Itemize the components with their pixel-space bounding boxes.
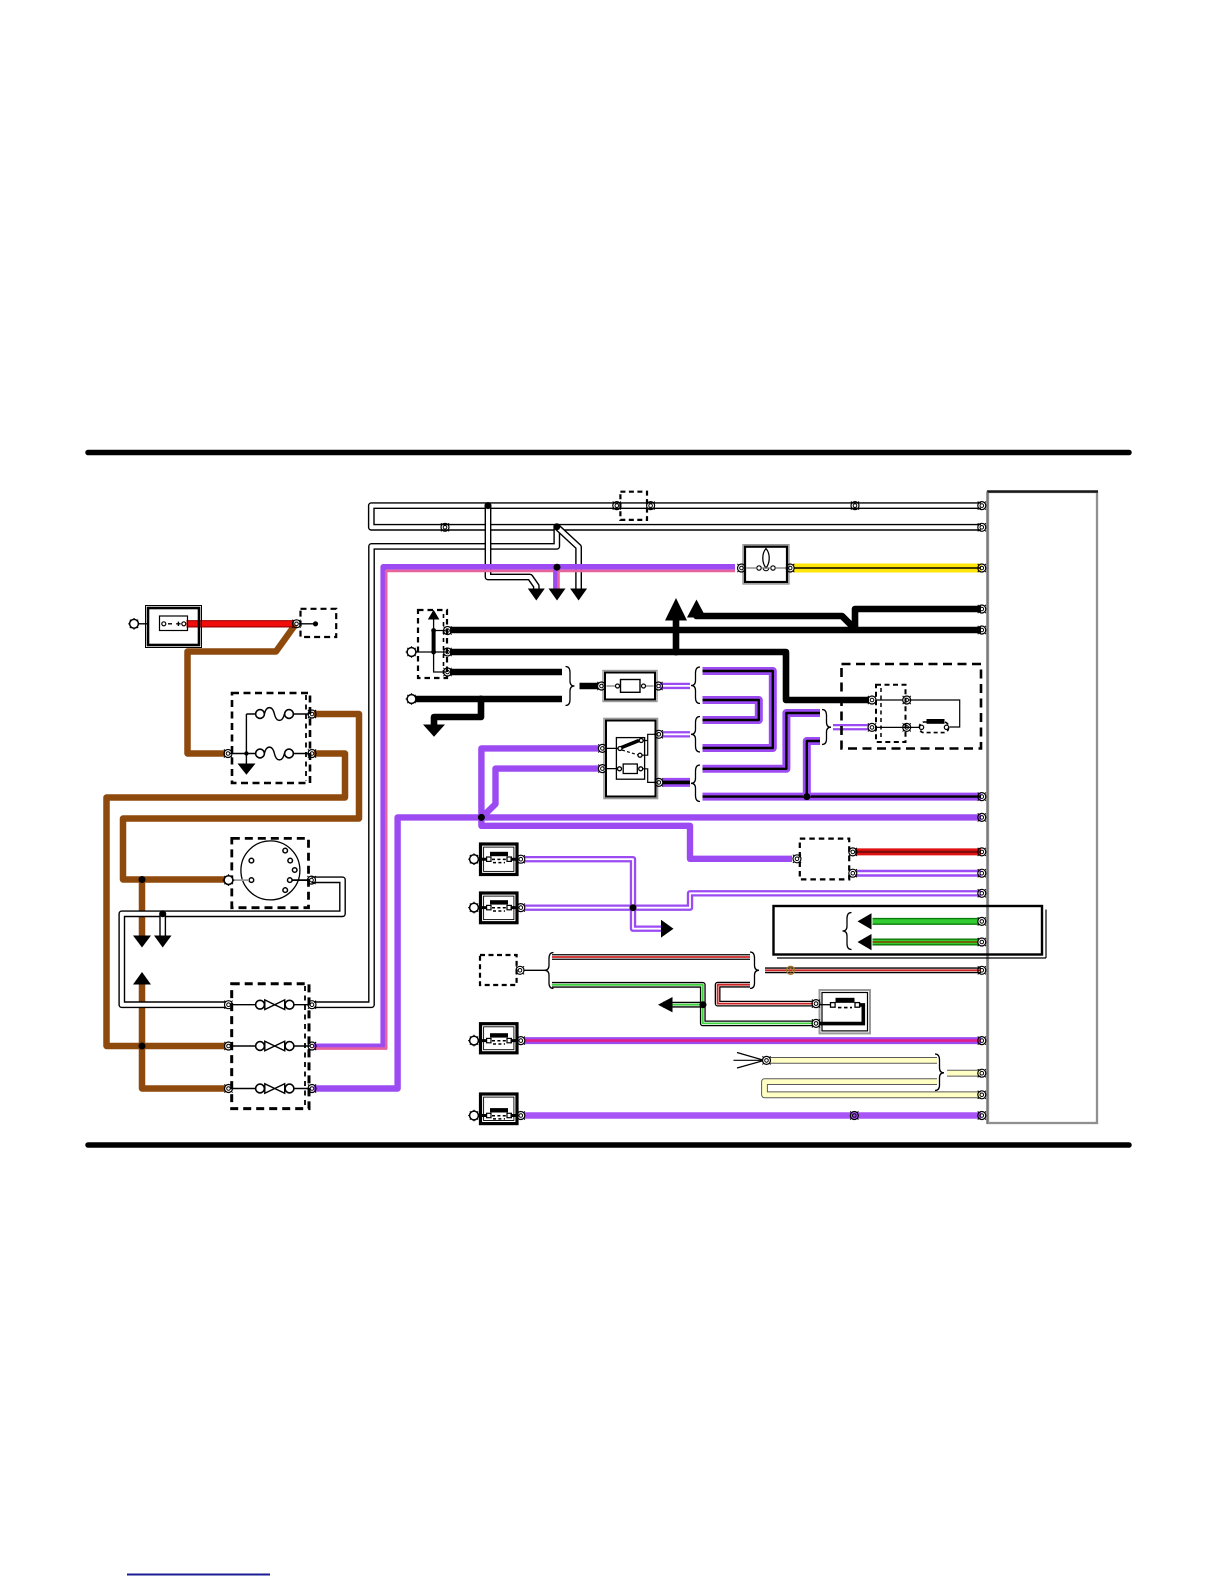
pin ECM red thin <box>978 966 986 974</box>
wire P branch to dashed connector C5 <box>481 817 792 858</box>
fusible link 1 element <box>265 1000 285 1010</box>
wire PW module M1 to off-page arrow core <box>525 859 664 929</box>
dashed connector C2 on white feed <box>620 492 647 520</box>
ring terminal wire4 <box>406 693 418 705</box>
wire GB thin brace to resistor unit outline <box>552 985 813 1024</box>
wire RB thin dashed connector to brace gap <box>552 955 750 958</box>
wire PB row to ECM pin purple <box>703 793 982 801</box>
pin fusible link 2 left <box>224 1042 232 1050</box>
battery terminal block <box>160 616 188 631</box>
arrow up brown off-page return <box>133 972 151 985</box>
wire W feed loop to ECM pins 1-2 outline <box>371 506 981 528</box>
distributor dashed case <box>232 838 309 907</box>
dashed connector C1 at battery <box>301 609 337 637</box>
wire W drop from splice B to arrow outline <box>557 527 579 590</box>
resistor unit bar <box>836 998 855 1003</box>
fusible link 3 left cap <box>256 1084 265 1093</box>
splice fan prongs <box>734 1053 764 1069</box>
wire GB thin branch to left arrow gap <box>663 1003 703 1006</box>
dashed connector C6 <box>480 955 517 985</box>
arrow left green branch <box>658 997 673 1012</box>
wire PW brace to ignition coil connector outline <box>833 724 869 730</box>
pin ECM yellow <box>978 564 986 572</box>
pin flasher left <box>737 564 745 572</box>
wire PK module M3 to ECM pin pink tracer <box>525 1039 982 1042</box>
fusible link 1 right cap <box>285 1000 294 1009</box>
coil capsule pin left <box>919 725 923 729</box>
wire B riser to ECM upper pin <box>855 609 981 630</box>
pin ECM PW M2 <box>978 889 986 897</box>
module M1 bar <box>490 852 508 856</box>
ignition switch lever <box>622 741 640 748</box>
module M2 bar <box>490 900 508 904</box>
flasher lamp leaf <box>763 549 769 569</box>
pin battery positive out <box>292 620 300 628</box>
fusible link 3 right cap <box>285 1084 294 1093</box>
wire PW in-line fuse to brace outline <box>660 683 690 689</box>
ignition coil connector strip <box>880 688 882 738</box>
wire G callout upper from ECM outline <box>873 918 979 925</box>
battery ground lead <box>139 623 149 625</box>
wire PB ignition switch output 2 purple <box>663 778 691 787</box>
arrow left green callout upper <box>858 913 872 929</box>
wire PW dashed connector C5 to ECM pin core <box>855 872 981 874</box>
main fuse box dashed case <box>232 693 310 783</box>
wire W drop from splice A to arrow core <box>488 506 536 590</box>
pin fusible link 3 left <box>224 1084 232 1092</box>
module M1 case <box>481 844 518 875</box>
brace gather fuse output rows <box>691 667 700 704</box>
battery positive terminal <box>182 622 186 626</box>
wire RB thin brace to resistor unit gap <box>718 985 813 1004</box>
arrow down white splice A <box>528 589 545 601</box>
fusible link 2 right cap <box>285 1042 294 1051</box>
ignition switch outer case <box>604 719 658 799</box>
module M1 stubs <box>478 858 519 861</box>
distributor terminal 7 <box>249 878 254 883</box>
GROUP: components <box>139 492 1047 1124</box>
wire B branch to ground arrow <box>434 699 481 725</box>
brace gather green callout rows <box>843 913 852 950</box>
connector C3 strip <box>443 614 445 674</box>
wire PW module M1 to off-page arrow outline <box>525 859 664 929</box>
fuse F2 left cap <box>256 749 265 758</box>
resistor unit feed link <box>819 1004 831 1006</box>
node black wire B riser <box>852 626 859 633</box>
wire PB row to ECM pin black tracer <box>703 795 982 797</box>
wire PW module M2 to ECM pin outline <box>525 893 982 907</box>
ring terminal wire C <box>406 646 418 658</box>
pin C6 out <box>516 966 524 974</box>
wire RB thin dashed connector to brace core <box>552 956 750 958</box>
module M3 capsule <box>492 1041 506 1044</box>
wire G callout upper from ECM core <box>873 919 979 923</box>
fuse F2 right cap <box>285 749 294 758</box>
wire W distributor loop to fusible link 1 core <box>122 880 343 1005</box>
wire RB thin brace to ECM pin core <box>765 969 981 971</box>
module M4 inner line <box>484 1097 514 1120</box>
main fuse box connector strip <box>305 695 307 781</box>
GROUP: black wires <box>414 598 981 737</box>
wire B connector to ignition coil connector <box>450 652 869 700</box>
GROUP: ecm box <box>987 492 1098 1125</box>
pin ignition switch left 2 <box>598 765 606 773</box>
flasher lamp curl <box>763 568 769 571</box>
ignition coil internal links <box>876 700 960 727</box>
brace merge pale yellow rows <box>935 1054 944 1091</box>
pin coil connector right 1 <box>903 696 911 704</box>
arrow down black ground <box>423 725 445 737</box>
wire B bar inside dashed connector <box>432 631 436 653</box>
ECM connector block <box>988 492 1097 1123</box>
ignition switch internal links run <box>642 734 655 755</box>
pin ECM pale yellow 2 <box>978 1091 986 1099</box>
in-line fuse case <box>605 673 655 700</box>
wire PB bundle row A black tracer <box>703 671 773 748</box>
brace split switch output rows <box>691 765 700 802</box>
node inside C1 <box>313 621 318 626</box>
wire PK module M3 to ECM pin purple <box>525 1037 982 1044</box>
wire P+K pair fusible link 2 to flasher pink <box>314 571 735 1049</box>
coil capsule pin right <box>944 725 948 729</box>
wire Y flasher unit to ECM pin <box>794 564 981 573</box>
wire W feed loop to ECM pins 1-2 core <box>371 506 981 528</box>
GROUP: purple wires <box>314 567 981 1089</box>
wire PB branch junction to coil brace bottom black tracer <box>807 741 820 797</box>
flasher unit outer case <box>743 545 789 584</box>
wire W fusible link 1 to splice outline <box>314 527 557 1004</box>
wire LGY brace to ECM pin core <box>947 1071 981 1076</box>
wire P feed to ignition switch pin 1 <box>481 748 599 817</box>
distributor output link <box>292 879 309 881</box>
wire B up-arrow A stem <box>673 619 680 652</box>
node splice purple-pink pair <box>554 564 561 571</box>
node black wire4 branch <box>478 696 485 703</box>
wire PW brace to ignition switch output 1 core <box>663 733 691 735</box>
module M2 capsule <box>492 908 506 911</box>
fusible link 1 left cap <box>256 1000 265 1009</box>
node PB coil branch <box>803 793 810 800</box>
ring terminal battery ground <box>128 618 140 630</box>
node fuse box internal <box>244 751 248 755</box>
module M1 inner line <box>484 847 514 871</box>
distributor terminal 4 <box>288 878 293 883</box>
in-line fuse right pip <box>642 684 646 688</box>
ignition switch dashed alternate throw <box>622 750 638 755</box>
resistor unit outer case <box>820 990 871 1033</box>
pin inline red thin <box>787 966 795 974</box>
ECM left edge accent <box>986 492 988 1125</box>
pin ignition switch left 1 <box>598 744 606 752</box>
node splice white ground <box>159 910 166 917</box>
pin ignition switch right 2 <box>655 778 663 786</box>
distributor terminal 3 <box>292 868 297 873</box>
wire RB thin brace to ECM pin gap <box>765 969 981 972</box>
in-line fuse element box <box>621 680 641 693</box>
pin C5 out red <box>849 848 857 856</box>
fusible link 3 element <box>265 1084 285 1094</box>
lead into C1 <box>299 623 316 625</box>
pin module M3 out <box>517 1037 525 1045</box>
wire N branch junction to off-page arrow <box>139 880 146 938</box>
resistor capsule pin right <box>855 1003 860 1008</box>
wire GB thin brace to resistor unit gap <box>552 985 813 1024</box>
wire PW dashed connector C5 to ECM pin outline <box>855 870 981 877</box>
pin C2 right <box>647 502 655 510</box>
ignition switch pivot <box>618 747 622 751</box>
ring terminal distributor feed <box>223 874 235 886</box>
wire link dashed connector C6 to brace <box>524 969 546 971</box>
pin C3 upper <box>443 626 451 634</box>
battery plus sign <box>176 622 180 626</box>
wire N fuse1 output to distributor feed <box>123 714 359 880</box>
arrow up inside C3 <box>428 610 440 620</box>
main fuse box feed link <box>230 714 309 764</box>
wire PB bundle row A purple <box>703 671 773 748</box>
pin ECM purple <box>978 813 986 821</box>
ignition coil primary capsule <box>920 722 949 733</box>
GROUP: frame rules <box>88 453 1129 1575</box>
pin fusible link 1 right <box>308 1001 316 1009</box>
wire PB bundle row B black tracer <box>703 700 759 720</box>
wire B brace to in-line fuse stub <box>580 683 599 690</box>
pin ECM black lower <box>978 626 986 634</box>
pin wire2 inline <box>441 523 449 531</box>
fuse F2 element <box>264 747 284 760</box>
battery inner case line <box>146 606 202 648</box>
wire N off-page return to fusible link 3 <box>142 983 225 1089</box>
fusible link 1 leads <box>230 1004 310 1006</box>
pin fuse box feed <box>224 749 232 757</box>
pin ECM white 1 <box>978 502 986 510</box>
fuse F1 left cap <box>256 710 265 719</box>
fusible link 3 leads <box>230 1088 310 1090</box>
wire GB thin branch to left arrow outline <box>663 1002 703 1008</box>
arrow down purple-pink drop <box>549 589 566 601</box>
pin ignition switch right 1 <box>655 730 663 738</box>
wire GN callout lower from ECM outline <box>873 939 979 946</box>
arrow down white splice B <box>570 589 587 601</box>
pin C3 middle <box>443 648 451 656</box>
wire PB switch output to coil brace top black tracer <box>703 713 821 769</box>
fuse F1 element <box>264 708 284 721</box>
wire B splice ring to brace <box>414 696 562 703</box>
arrow right purple off-page <box>661 920 674 938</box>
ignition switch internal links start <box>643 769 655 783</box>
wire PW brace to ignition switch output 1 outline <box>663 731 691 737</box>
wire N fuse2 output to fusible link 2 <box>107 754 346 1047</box>
ignition coil connector dashed <box>876 685 906 742</box>
pin C2 left <box>613 502 621 510</box>
pin in-line fuse left <box>597 682 605 690</box>
pin fusible link 1 left <box>224 1001 232 1009</box>
pin ECM white 2 <box>978 523 986 531</box>
distributor feed link gray <box>231 879 249 881</box>
ring terminal module M3 <box>468 1035 480 1047</box>
wire RB thin brace to resistor unit core <box>718 985 813 1004</box>
wire B from up-arrow B to junction <box>697 614 856 629</box>
wire P fusible link 3 to ECM pin <box>314 817 981 1088</box>
pin module M2 out <box>517 904 525 912</box>
pin resistor unit red <box>812 1000 820 1008</box>
module M2 stubs <box>478 906 519 909</box>
pin ECM green upper <box>978 917 986 925</box>
arrow up black B <box>687 600 706 618</box>
wire W ground drop from splice core <box>161 914 165 936</box>
wire PB bundle row B purple <box>703 700 759 720</box>
ring terminal module M4 <box>468 1110 480 1122</box>
fusible link box connector strip <box>304 986 306 1106</box>
pin fuse F1 out <box>308 710 316 718</box>
wire Y black tracer <box>794 567 981 569</box>
distributor terminal 6 <box>249 858 254 863</box>
pin coil connector left 1 <box>868 696 876 704</box>
module M4 capsule <box>492 1116 506 1119</box>
resistor unit return link thick <box>819 1005 863 1024</box>
GROUP: colored wires to ecm <box>187 568 982 1116</box>
callout box for green wires <box>774 906 1043 955</box>
pin C5 feed <box>793 855 801 863</box>
pin ECM black upper <box>978 605 986 613</box>
callout box shadow right <box>1045 910 1047 959</box>
arrow down brown off-page <box>133 936 151 948</box>
ignition switch mechanism frame <box>616 738 644 780</box>
module M4 stubs <box>478 1114 519 1117</box>
wire LGY splice to brace outline <box>770 1057 937 1064</box>
module M3 inner line <box>484 1027 514 1050</box>
node C3 internal upper <box>431 628 436 633</box>
wire P module M4 to ECM pin <box>525 1112 982 1119</box>
wire PW brace to ignition coil connector core <box>833 726 869 728</box>
wire RB thin brace to resistor unit outline <box>718 985 813 1004</box>
dashed connector C3 black feeds <box>418 610 447 678</box>
arrow down fuse box ground <box>238 764 256 775</box>
wire GB thin branch to left arrow core <box>663 1004 703 1006</box>
node green thin branch <box>700 1001 707 1008</box>
wire PW module M2 to ECM pin core <box>525 893 982 907</box>
pin distributor out <box>307 876 315 884</box>
wire LGY hairpin to ECM pin core <box>765 1082 982 1095</box>
pin flasher right <box>786 564 794 572</box>
wire W drop from splice B to arrow core <box>557 527 579 590</box>
top page rule <box>88 450 1129 456</box>
fusible link 2 left cap <box>256 1042 265 1051</box>
pin fusible link 3 right <box>308 1084 316 1092</box>
wire LGY brace to ECM pin outline <box>947 1070 981 1077</box>
callout box shadow bottom <box>777 957 1046 959</box>
node splice wire1 white <box>485 502 492 509</box>
pin fuse F2 out <box>308 749 316 757</box>
pin wire1 inline <box>851 502 859 510</box>
battery outer case <box>148 608 199 645</box>
flasher contact right <box>771 566 775 570</box>
wire R battery positive cable core <box>187 621 295 626</box>
pin inline module M4 wire <box>850 1111 858 1119</box>
wire P+K splice drop pink <box>557 571 560 591</box>
engine bay dashed boundary with ignition coil <box>842 664 982 749</box>
brace gather switch input rows <box>691 717 700 753</box>
pin resistor unit green <box>812 1019 820 1027</box>
flasher contact left <box>757 566 761 570</box>
wire B connector pin 1 to ECM pin <box>450 627 981 634</box>
node PW module join <box>630 904 637 911</box>
pin C5 out purple <box>849 869 857 877</box>
brace split C6 rows <box>545 953 554 989</box>
flasher unit case <box>745 547 787 582</box>
wire P+K pair fusible link 2 to flasher purple <box>314 567 735 1047</box>
wire W ground drop from splice outline <box>159 914 166 936</box>
resistor capsule pin left <box>831 1003 836 1008</box>
ECM top edge accent <box>987 490 1098 492</box>
wire N battery to main fusebox <box>188 625 296 754</box>
connector C3 internal tree <box>414 620 446 673</box>
distributor terminal 2 <box>288 858 293 863</box>
wire B connector pin 3 to brace <box>450 669 562 676</box>
wire RB thin brace to ECM pin outline <box>765 967 981 973</box>
distributor cap circle <box>241 841 300 900</box>
wire GB thin brace to resistor unit core <box>552 985 813 1024</box>
node splice wire2 white <box>553 523 560 530</box>
pin ECM red <box>978 848 986 856</box>
bottom page rule <box>88 1142 1129 1148</box>
wire PB branch junction to coil brace bottom purple <box>807 741 820 797</box>
arrow left green callout lower <box>858 934 872 950</box>
fusible link 2 element <box>265 1041 285 1051</box>
module M2 inner line <box>484 896 514 920</box>
resistor unit case <box>822 993 868 1031</box>
fusible link 2 leads <box>230 1045 310 1047</box>
pin module M1 out <box>517 855 525 863</box>
node brown fusible link branch <box>139 1043 146 1050</box>
arrow up black A <box>665 598 687 621</box>
footer blue link underline <box>127 1574 270 1576</box>
distributor terminal 1 <box>283 848 288 853</box>
in-line fuse outer case <box>603 671 657 702</box>
pin splice pale yellow <box>762 1056 770 1064</box>
GROUP: brown wires <box>107 625 360 1089</box>
ring terminal module M2 <box>468 902 480 914</box>
wire GN callout lower brown tracer <box>873 941 979 943</box>
wire R battery positive cable outline <box>187 620 295 627</box>
ignition switch contact start <box>638 753 642 757</box>
pin ECM PK <box>978 1037 986 1045</box>
ring terminal module M1 <box>468 853 480 865</box>
pin ECM green lower <box>978 938 986 946</box>
dashed connector C5 <box>800 839 849 880</box>
pin coil connector left 2 <box>868 723 876 731</box>
brace merge black rows 3-4 <box>566 667 575 706</box>
ignition switch feed links <box>607 748 619 768</box>
module M3 case <box>481 1024 518 1053</box>
pin coil connector right 2 <box>903 723 911 731</box>
pin in-line fuse right <box>654 682 662 690</box>
flasher internal leads <box>746 567 786 569</box>
module M4 bar <box>490 1108 508 1112</box>
pin C3 lower <box>443 668 451 676</box>
ignition switch resistor <box>623 764 637 774</box>
wire W distributor loop to fusible link 1 outline <box>122 880 343 1005</box>
wire R dark tracer <box>855 851 981 853</box>
wire R dashed connector C5 to ECM pin <box>855 848 981 855</box>
battery minus sign <box>168 623 172 625</box>
wire W fusible link 1 to splice core <box>314 529 557 1005</box>
in-line fuse leads <box>607 685 654 687</box>
ignition switch case <box>606 721 656 797</box>
wire PB switch output to coil brace top purple <box>703 713 821 769</box>
GROUP: white wires <box>122 506 981 1005</box>
module M3 bar <box>490 1033 508 1037</box>
module M1 capsule <box>492 859 506 862</box>
